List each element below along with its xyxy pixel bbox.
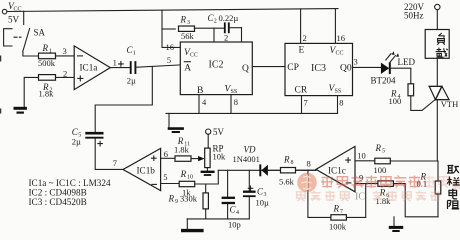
svg-text:1N4001: 1N4001 bbox=[233, 154, 260, 164]
svg-text:10: 10 bbox=[357, 150, 366, 160]
resistor R8 bbox=[279, 155, 296, 187]
svg-text:330k: 330k bbox=[180, 194, 198, 204]
IC2 bottom stubs bbox=[199, 95, 231, 114]
svg-text:CC: CC bbox=[336, 50, 344, 56]
wire source to load bbox=[436, 10, 438, 30]
wire VD to R8 bbox=[268, 169, 281, 171]
svg-text:8: 8 bbox=[291, 160, 294, 166]
svg-text:7: 7 bbox=[304, 98, 308, 108]
wire C5 to IC1b out bbox=[95, 139, 123, 169]
svg-text:5: 5 bbox=[167, 55, 171, 65]
op-amp IC1c bbox=[316, 146, 355, 191]
wire R8 to IC1c bbox=[296, 169, 317, 171]
watermark logo bbox=[297, 173, 317, 193]
svg-text:3: 3 bbox=[354, 57, 358, 67]
svg-text:IC3 : CD4520B: IC3 : CD4520B bbox=[29, 197, 87, 207]
svg-text:2: 2 bbox=[303, 33, 307, 43]
svg-text:100k: 100k bbox=[329, 222, 347, 232]
capacitor C5 bbox=[72, 127, 104, 147]
svg-text:VTH: VTH bbox=[441, 99, 458, 109]
svg-text:4: 4 bbox=[236, 210, 239, 216]
wire R2 left to ground bbox=[24, 77, 38, 107]
resistor R11 bbox=[174, 136, 191, 161]
sampling resistor label (qu yang dian zu) bbox=[447, 166, 460, 210]
svg-text:2µ: 2µ bbox=[72, 137, 81, 147]
svg-text:50Hz: 50Hz bbox=[404, 11, 424, 21]
svg-text:LED: LED bbox=[398, 57, 416, 67]
svg-text:B: B bbox=[197, 86, 203, 96]
svg-text:0.22µ: 0.22µ bbox=[219, 13, 239, 23]
svg-text:IC2 : CD4098B: IC2 : CD4098B bbox=[29, 187, 87, 197]
resistor R2 bbox=[39, 75, 56, 99]
AC source 220V 50Hz bbox=[404, 2, 440, 21]
svg-text:500k: 500k bbox=[38, 58, 56, 68]
wire LED to R4 bbox=[390, 68, 411, 84]
svg-text:Q0: Q0 bbox=[340, 64, 352, 74]
resistor R6 bbox=[376, 181, 394, 206]
wire R4 to gate bbox=[411, 96, 435, 111]
svg-text:2µ: 2µ bbox=[127, 76, 136, 86]
IC3 bottom stubs bbox=[302, 96, 338, 113]
wire pin10 bbox=[355, 160, 375, 162]
svg-text:8: 8 bbox=[234, 97, 238, 107]
wire R10 to node bbox=[195, 170, 219, 184]
wire Q to CP bbox=[252, 66, 285, 68]
svg-text:IC1c: IC1c bbox=[328, 165, 346, 175]
load box (fu zai) bbox=[425, 30, 449, 59]
svg-text:R: R bbox=[168, 194, 175, 204]
svg-text:8: 8 bbox=[339, 98, 343, 108]
wire R1 to pin3 bbox=[56, 55, 75, 57]
switch SA bbox=[4, 11, 46, 51]
svg-text:1: 1 bbox=[133, 51, 136, 57]
wire R to ground line bbox=[437, 194, 439, 217]
resistor R7 feedback bbox=[308, 170, 366, 231]
svg-text:5: 5 bbox=[163, 172, 167, 182]
ground under RP bbox=[201, 168, 215, 175]
svg-text:5: 5 bbox=[382, 149, 385, 155]
resistor R3 bbox=[162, 15, 195, 41]
svg-text:1: 1 bbox=[113, 57, 117, 67]
svg-text:5.6k: 5.6k bbox=[279, 177, 295, 187]
svg-text:IC1a ~ IC1C : LM324: IC1a ~ IC1C : LM324 bbox=[29, 178, 111, 188]
svg-text:SA: SA bbox=[34, 28, 46, 38]
wiper arrow to RP bbox=[191, 158, 199, 160]
svg-text:R: R bbox=[283, 155, 290, 165]
capacitor C1 bbox=[127, 45, 137, 86]
watermark row1 bbox=[321, 176, 333, 188]
5V terminal bbox=[206, 127, 225, 137]
pin 1 / pin 2 stubs bbox=[214, 28, 242, 42]
svg-text:100: 100 bbox=[389, 96, 402, 106]
svg-text:1.8k: 1.8k bbox=[174, 145, 190, 155]
potentiometer RP bbox=[205, 134, 226, 167]
spine triac to R bbox=[436, 100, 439, 181]
svg-text:R: R bbox=[42, 43, 49, 53]
svg-text:10: 10 bbox=[187, 175, 193, 181]
svg-text:IC1b: IC1b bbox=[137, 165, 156, 175]
svg-text:6: 6 bbox=[164, 149, 168, 159]
op-amp IC1b bbox=[123, 148, 161, 190]
svg-text:3: 3 bbox=[63, 46, 67, 56]
svg-text:2: 2 bbox=[63, 69, 67, 79]
IC3 top stubs bbox=[301, 9, 336, 44]
resistor R4 bbox=[389, 84, 414, 106]
svg-text:R: R bbox=[375, 143, 382, 153]
wire R5 to spine bbox=[390, 160, 438, 162]
IC2 CD4098B bbox=[180, 42, 252, 96]
svg-text:IC3: IC3 bbox=[311, 63, 326, 74]
svg-text:1: 1 bbox=[49, 49, 52, 55]
svg-text:R: R bbox=[333, 204, 340, 214]
wire IC1a out bbox=[110, 67, 130, 69]
svg-text:CC: CC bbox=[190, 53, 198, 59]
svg-text:2: 2 bbox=[224, 33, 228, 43]
svg-text:7: 7 bbox=[113, 158, 117, 168]
ground bbox=[168, 113, 184, 132]
wire Q0 out bbox=[353, 66, 381, 68]
wire load to triac bbox=[436, 58, 438, 86]
svg-text:IC: IC bbox=[355, 192, 365, 203]
resistor R9 bbox=[168, 184, 209, 219]
svg-text:5V: 5V bbox=[213, 127, 225, 137]
svg-text:10k: 10k bbox=[213, 152, 227, 162]
svg-text:16: 16 bbox=[166, 42, 175, 52]
svg-text:E: E bbox=[299, 46, 305, 56]
svg-text:R: R bbox=[180, 169, 187, 179]
ground bbox=[14, 108, 27, 112]
svg-text:VD: VD bbox=[244, 145, 256, 155]
svg-text:Q: Q bbox=[242, 64, 249, 74]
wire switch to R1 bbox=[23, 52, 38, 57]
svg-text:100: 100 bbox=[374, 165, 387, 175]
wire R2 to pin2 bbox=[56, 76, 75, 78]
wire pin6 bbox=[161, 157, 175, 159]
svg-text:A: A bbox=[184, 64, 191, 74]
capacitor C4 bbox=[222, 170, 241, 229]
triac VTH bbox=[429, 86, 458, 109]
op-amp IC1a bbox=[74, 46, 110, 90]
svg-text:10µ: 10µ bbox=[256, 198, 270, 208]
svg-text:IC2: IC2 bbox=[209, 60, 224, 71]
node line to VD/R8 bbox=[218, 169, 316, 171]
watermark row2 bbox=[297, 192, 306, 201]
node junction below C1 bbox=[95, 66, 152, 131]
resistor R1 bbox=[38, 43, 56, 68]
LED BT204 bbox=[371, 51, 416, 86]
wire pin5 bbox=[161, 183, 180, 185]
bottom ground rail bbox=[187, 218, 249, 220]
svg-text:BT204: BT204 bbox=[371, 76, 397, 86]
parts list text bbox=[29, 178, 111, 207]
resistor R5 bbox=[374, 143, 391, 175]
pin 16 wire bbox=[162, 10, 180, 47]
svg-text:9: 9 bbox=[175, 199, 178, 205]
scan edge marks bbox=[0, 56, 1, 114]
svg-text:R: R bbox=[180, 15, 187, 25]
svg-text:10p: 10p bbox=[228, 220, 241, 230]
svg-text:2: 2 bbox=[214, 19, 217, 25]
svg-text:3: 3 bbox=[187, 20, 190, 26]
svg-text:CP: CP bbox=[287, 63, 299, 73]
svg-text:16: 16 bbox=[337, 33, 346, 43]
ground bbox=[181, 219, 204, 231]
svg-text:7: 7 bbox=[340, 209, 343, 215]
capacitor C3 bbox=[243, 170, 269, 219]
sampling resistor R 0.1 bbox=[417, 171, 441, 194]
diode VD 1N4001 bbox=[233, 145, 268, 177]
svg-text:1.8k: 1.8k bbox=[39, 89, 55, 99]
resistor R10 bbox=[179, 169, 195, 197]
wire pin9 bbox=[355, 183, 378, 185]
wire Vcc rail bbox=[7, 9, 338, 12]
svg-text:8: 8 bbox=[307, 159, 311, 169]
common Vss line bbox=[166, 112, 338, 114]
svg-text:IC1a: IC1a bbox=[80, 63, 98, 73]
svg-text:SS: SS bbox=[335, 89, 342, 95]
svg-text:56k: 56k bbox=[181, 31, 195, 41]
svg-text:CR: CR bbox=[295, 86, 308, 96]
wire C1 to IC2 pin5 bbox=[135, 65, 180, 67]
wire R6 to ground bbox=[393, 184, 438, 217]
capacitor C2 bbox=[195, 13, 242, 33]
svg-text:5V: 5V bbox=[8, 15, 20, 25]
Vcc terminal bbox=[2, 2, 21, 25]
IC3 CD4520B bbox=[285, 43, 353, 95]
ground bbox=[389, 217, 403, 231]
